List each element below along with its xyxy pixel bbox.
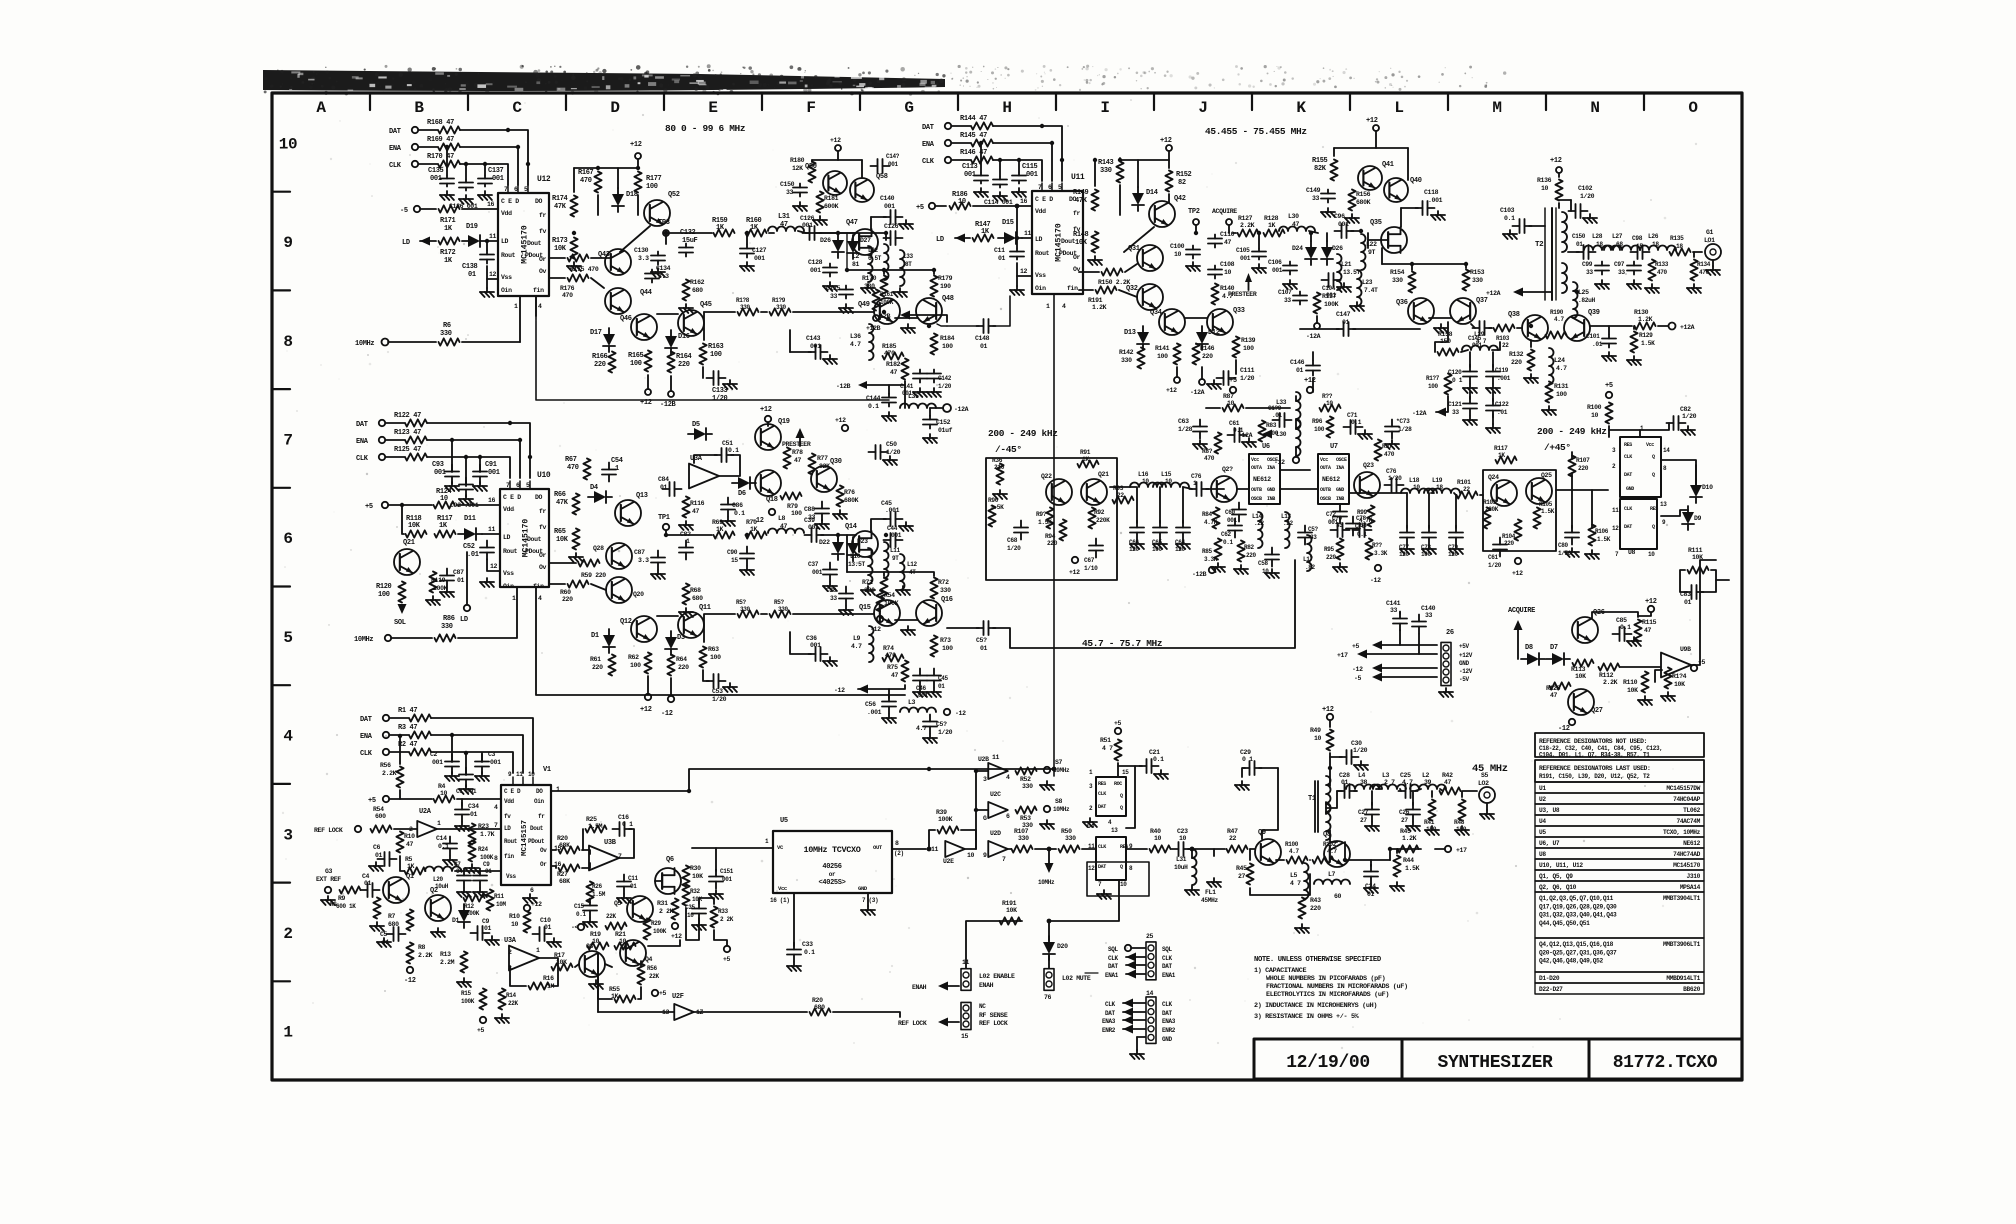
svg-text:FL1: FL1 [1205,889,1216,896]
junction dot [884,231,888,235]
svg-text:-12A: -12A [1306,333,1321,340]
svg-text:+5: +5 [368,797,376,805]
wire osc out [670,232,712,234]
svg-text:R33: R33 [718,908,729,915]
wire ff vcc [1608,426,1610,437]
svg-text:7: 7 [283,431,292,449]
resistor R86 [435,634,456,641]
svg-text:220: 220 [562,596,573,603]
svg-text:DAT: DAT [1108,963,1119,970]
svg-text:GND: GND [1459,660,1470,667]
svg-text:C68: C68 [1007,537,1018,544]
svg-text:MPSA14: MPSA14 [1680,884,1701,891]
svg-text:001: 001 [808,524,819,531]
svg-text:L35: L35 [908,393,919,400]
svg-text:R92: R92 [1094,509,1105,516]
resistor R54b [371,825,392,832]
svg-text:1) CAPACITANCE: 1) CAPACITANCE [1254,967,1306,975]
diode D13 [1142,326,1144,332]
svg-text:Ov: Ov [539,564,547,571]
wire cap stubs U1 [451,735,453,762]
resistor R63 [699,647,706,668]
svg-text:27: 27 [1401,817,1408,824]
svg-text:MC145170: MC145170 [1055,223,1064,262]
resistor R119 [429,572,436,593]
diode D16 [670,330,672,336]
svg-text:R134: R134 [1697,261,1711,268]
svg-text:R64: R64 [676,656,687,663]
ground U1 Vss [529,894,531,898]
capacitor C72 [1339,505,1341,512]
ground C33 [793,962,795,966]
svg-text:0.1: 0.1 [804,949,815,956]
svg-text:100K: 100K [433,585,448,592]
svg-text:10: 10 [1227,400,1235,407]
diode D1 [608,629,610,635]
svg-text:C61: C61 [1488,554,1499,561]
wire Q14 drain [871,519,886,531]
junction dot [1017,158,1021,162]
wire R33 net [714,930,727,946]
svg-text:R84: R84 [1202,511,1213,518]
capacitor C102 [1559,199,1571,201]
svg-text:R48: R48 [1454,819,1465,826]
svg-text:R174: R174 [552,195,568,203]
svg-text:47: 47 [891,672,899,679]
svg-text:0.1: 0.1 [728,447,739,454]
svg-text:NOTE. UNLESS OTHERWISE SPECIFI: NOTE. UNLESS OTHERWISE SPECIFIED [1254,956,1382,964]
capacitor C114 [999,160,1001,176]
svg-text:001: 001 [1328,519,1339,526]
svg-text:INA: INA [1336,465,1344,471]
arrow +17 [1357,650,1367,659]
svg-text:100: 100 [378,591,390,599]
svg-text:D27: D27 [860,237,871,244]
svg-text:DAT: DAT [1162,1010,1173,1017]
resistor R159 [714,229,735,236]
svg-text:-12A: -12A [1238,432,1253,439]
svg-text:1.5K: 1.5K [990,504,1004,511]
resistor R135 [1670,248,1691,255]
resistor R191 [1000,917,1021,924]
svg-text:82: 82 [1178,179,1186,187]
junction dot [998,158,1002,162]
svg-text:R39: R39 [936,809,947,816]
resistor R40 [1150,845,1171,852]
wire U2D out [1008,848,1011,850]
IC U6 NE612 [1249,454,1280,504]
wire presteer [799,438,801,446]
svg-text:330: 330 [441,623,453,631]
ground C8 [479,888,481,892]
svg-text:C97: C97 [1614,261,1625,268]
svg-text:01: 01 [544,924,552,931]
svg-text:C5?: C5? [936,721,947,728]
svg-text:C137: C137 [488,167,504,175]
capacitor C11 [623,875,625,882]
svg-text:Rout: Rout [501,252,516,259]
svg-text:5: 5 [524,186,528,193]
svg-text:220: 220 [678,361,690,369]
capacitor C108 [1214,266,1216,270]
svg-text:001: 001 [432,759,443,766]
svg-text:+12: +12 [1366,117,1378,125]
IC U1 MC145157 [501,785,551,885]
svg-text:C29: C29 [1240,749,1251,756]
svg-text:82K: 82K [1314,165,1327,173]
svg-text:<4025S>: <4025S> [819,879,846,887]
sheet border frame [272,93,1742,1080]
svg-text:SQL: SQL [1162,946,1173,953]
transformer T1 secondary [1326,804,1331,840]
svg-text:DO: DO [535,494,543,501]
svg-text:R85: R85 [1202,548,1213,555]
inductor L7 [1314,880,1350,885]
svg-text:C50: C50 [886,441,897,448]
capacitor C140b [1418,615,1420,622]
inductor L10 [868,548,873,584]
svg-text:1: 1 [556,786,560,793]
svg-text:1/20: 1/20 [1240,375,1255,382]
svg-text:001: 001 [488,469,500,477]
capacitor C144 [888,385,890,394]
resistor R167 [594,172,601,193]
svg-text:D7: D7 [1550,644,1558,652]
wire U2C in [976,809,988,811]
svg-text:CLK: CLK [1162,955,1173,962]
junction U5 out [927,847,932,852]
svg-text:TP1: TP1 [658,514,670,522]
IC U11 MC145170 [1032,191,1083,294]
junction dot [596,166,600,170]
svg-text:Or: Or [540,861,547,868]
svg-text:C84: C84 [658,476,669,483]
svg-text:R136: R136 [1537,177,1552,184]
svg-text:S8: S8 [1055,798,1063,805]
svg-text:R25: R25 [586,816,597,823]
inductor L5 [1304,863,1309,899]
svg-text:47: 47 [1292,221,1300,228]
ground C80 [1571,548,1573,552]
resistor R161 [872,290,879,311]
svg-text:+12: +12 [835,417,846,424]
wire fbC [847,572,934,576]
svg-text:PDout: PDout [528,838,545,845]
resistor R36 [996,464,1003,485]
reference designator table [1535,782,1704,793]
svg-text:C11: C11 [628,875,639,882]
svg-text:LD: LD [501,238,509,245]
junction dot [687,789,691,793]
svg-text:33: 33 [1425,612,1433,619]
ground C71 [1364,430,1366,434]
capacitor C46 [919,669,921,676]
svg-text:47K: 47K [556,499,569,507]
inductor L21 [1337,254,1342,290]
resistor R62 [644,653,651,674]
svg-text:-12A: -12A [1190,389,1205,396]
ground C26 [1412,822,1414,826]
wire T1 tap [1326,791,1337,808]
resistor R181 [816,192,823,213]
svg-text:600K: 600K [824,203,839,210]
svg-text:MMBT3904LT1: MMBT3904LT1 [1663,895,1701,902]
svg-text:CLK: CLK [1098,844,1106,850]
svg-text:27: 27 [1238,873,1246,880]
junction dot [979,141,983,145]
transistor Q27 [1568,689,1594,715]
terminal -12 C bottom [668,696,674,702]
junction dot [1047,847,1051,851]
junction dot [927,324,931,328]
ground C53 [729,683,731,687]
junction dot [1410,262,1414,266]
capacitor C59 [1304,526,1306,533]
svg-text:10: 10 [440,790,448,797]
svg-text:10: 10 [1591,412,1599,419]
capacitor C47 [933,669,935,676]
svg-text:2.2K: 2.2K [382,770,397,777]
resistor R148 [1091,232,1098,253]
svg-text:R32: R32 [690,888,701,895]
resistor R51 [1114,740,1121,761]
svg-text:001: 001 [434,469,446,477]
resistor R23 [468,824,475,845]
resistor R113 [1573,659,1594,666]
svg-text:Q46: Q46 [620,315,632,323]
svg-text:Q6: Q6 [666,856,674,864]
ground S7 [1046,781,1048,785]
svg-text:.001: .001 [867,709,882,716]
svg-text:C11: C11 [994,247,1005,254]
svg-text:.001: .001 [885,507,900,514]
transistor Q45 [678,310,704,336]
svg-text:C135: C135 [428,167,444,175]
svg-text:R26: R26 [592,883,603,890]
svg-text:10K: 10K [554,245,567,253]
svg-text:OSCB: OSCB [1320,496,1331,502]
svg-text:68K: 68K [559,878,570,885]
inductor L31b [1192,849,1197,885]
svg-text:L17: L17 [1303,556,1314,563]
svg-text:+12: +12 [1512,570,1523,577]
capacitor C36 [809,653,816,655]
svg-text:R42: R42 [1442,772,1453,779]
svg-text:18: 18 [1652,241,1659,248]
svg-text:R8: R8 [418,944,426,951]
svg-text:GND: GND [858,885,868,892]
svg-text:7: 7 [1002,856,1006,863]
svg-text:R171: R171 [440,217,456,225]
svg-text:R56: R56 [380,762,391,769]
svg-text:ENA3: ENA3 [1162,1018,1176,1025]
svg-text:U3B: U3B [604,839,617,847]
wire Q15-Q16 base [895,619,918,621]
ground R48 [1461,826,1463,830]
svg-text:0.1: 0.1 [734,510,745,517]
svg-text:600: 600 [375,813,386,820]
svg-text:R191, C150, L39, D20, U12, Q52: R191, C150, L39, D20, U12, Q52, T2 [1539,773,1650,780]
svg-text:C110: C110 [1220,231,1235,238]
svg-text:4 7: 4 7 [1290,880,1301,887]
svg-text:15uF: 15uF [682,237,698,245]
resistor R10b [523,912,530,933]
svg-text:R103: R103 [1483,499,1497,506]
ground G3 [327,896,329,900]
svg-text:330: 330 [1065,835,1076,842]
svg-text:C142: C142 [938,375,952,382]
capacitor C7 [463,869,465,876]
svg-text:MMBT3906LT1: MMBT3906LT1 [1663,941,1701,948]
svg-text:68K: 68K [559,842,570,849]
transistor Q39 [1564,315,1590,341]
svg-text:1K: 1K [981,228,990,236]
svg-text:CLK: CLK [922,158,935,166]
svg-text:.82: .82 [1305,564,1316,571]
svg-text:01: 01 [1296,367,1304,374]
svg-text:01: 01 [938,683,945,690]
junction dot [450,733,454,737]
resistor R111 [1688,566,1709,573]
svg-text:REF LOCK: REF LOCK [314,827,343,834]
wire U7 out [1280,488,1318,490]
svg-text:R130: R130 [1634,309,1649,316]
ground L12 [902,586,904,590]
svg-text:Ov: Ov [540,847,547,854]
svg-text:R45: R45 [1236,865,1247,872]
svg-text:001: 001 [884,203,895,210]
svg-text:R142: R142 [1119,349,1134,356]
resistor R77 [808,454,815,475]
svg-text:680K: 680K [844,497,859,504]
svg-text:LD: LD [503,534,511,541]
resistor R185 [883,352,904,359]
capacitor C84 [663,488,670,490]
svg-text:R74: R74 [883,645,894,652]
inductor L18 [1401,489,1437,494]
junction dot [516,145,520,149]
diode D3 [670,631,672,637]
svg-text:Or: Or [539,256,547,263]
capacitor C61 [1228,434,1235,436]
svg-text:+17: +17 [1337,652,1348,659]
wire C56 stub [888,689,890,698]
resistor R25 [586,825,607,832]
ACQUIRE arrow E [1514,620,1523,630]
svg-text:10: 10 [1541,185,1549,192]
ground C29 [1241,781,1243,785]
wires corner cluster [1435,322,1448,352]
ground C27 [1371,822,1373,826]
svg-text:+5: +5 [1114,720,1122,727]
svg-text:U2A: U2A [419,808,432,816]
svg-text:14: 14 [1663,447,1670,454]
connector J26 [1441,642,1451,685]
svg-text:PRESTEER: PRESTEER [1228,291,1257,298]
svg-text:74HC74AD: 74HC74AD [1673,851,1701,858]
svg-text:(2): (2) [894,850,904,857]
svg-text:R43: R43 [1310,897,1321,904]
svg-text:330: 330 [740,304,751,311]
buffer U2F [674,1004,694,1020]
terminal +12 oscB bottom [1174,377,1180,383]
svg-text:100K: 100K [938,816,953,823]
capacitor C10 [533,933,540,935]
wire fbB [1382,263,1466,265]
IC U8 74HC74 bottom [1096,837,1126,880]
resistor R83 [1258,421,1265,442]
svg-text:ROC: ROC [1114,781,1122,787]
svg-text:-12B: -12B [660,401,677,409]
arrow CLK2 [1123,999,1133,1008]
svg-text:T2: T2 [1535,241,1544,249]
svg-text:001: 001 [812,569,823,576]
svg-text:R65: R65 [554,528,566,536]
svg-text:10: 10 [1648,551,1655,558]
capacitor C88 [821,502,823,509]
diode D26 [837,234,839,240]
svg-text:R71: R71 [862,579,873,586]
resistor R92 [1088,508,1095,529]
capacitor C130 [657,252,659,256]
svg-text:DAT: DAT [389,128,401,136]
svg-text:DO: DO [535,198,543,205]
svg-text:OUT: OUT [873,844,883,851]
terminal +5 R56 [652,990,658,996]
svg-text:R145 47: R145 47 [960,132,987,140]
svg-text:fr: fr [539,508,547,515]
junction dot [882,310,886,314]
wire U1 Oin to TCVCXO area [551,769,1054,791]
resistor R152 [1165,171,1172,192]
svg-text:D13: D13 [1124,329,1136,337]
svg-text:OUTA: OUTA [1320,465,1331,471]
svg-text:ENA1: ENA1 [1162,972,1176,979]
-12 arrow C [858,685,868,694]
svg-text:ENA1: ENA1 [1105,972,1119,979]
svg-text:100: 100 [942,645,953,652]
svg-text:100: 100 [630,662,641,669]
ground C24 [1370,884,1372,888]
svg-text:10: 10 [967,852,975,859]
svg-text:Q13: Q13 [636,492,648,500]
svg-text:or: or [829,871,836,878]
wire pin15 [549,583,565,585]
svg-text:REF LOCK: REF LOCK [979,1020,1008,1027]
capacitor C112 [1016,206,1018,248]
svg-text:L20: L20 [433,876,444,883]
diode D24 [1310,241,1312,247]
svg-text:330: 330 [778,606,789,613]
title block date box [1254,1039,1402,1079]
svg-text:3.3K: 3.3K [1374,550,1388,557]
resistor R142 [1137,348,1144,369]
svg-text:TCXO, 10MHz: TCXO, 10MHz [1663,829,1701,836]
wire opamp in [1655,670,1662,682]
diode D18 [617,188,619,194]
svg-text:L5: L5 [1290,872,1298,879]
svg-text:1K: 1K [1498,452,1505,459]
ground J14 [1136,1050,1138,1054]
svg-text:Q34: Q34 [1150,309,1162,317]
svg-text:C28: C28 [1339,772,1350,779]
svg-text:200 - 249 kHz: 200 - 249 kHz [988,428,1058,439]
IC U8 flip-flop B [1620,499,1657,549]
terminal -12B below [668,391,674,397]
transistor Q21b [1081,479,1107,505]
svg-text:22: 22 [1229,835,1237,842]
svg-text:LD: LD [936,236,944,244]
